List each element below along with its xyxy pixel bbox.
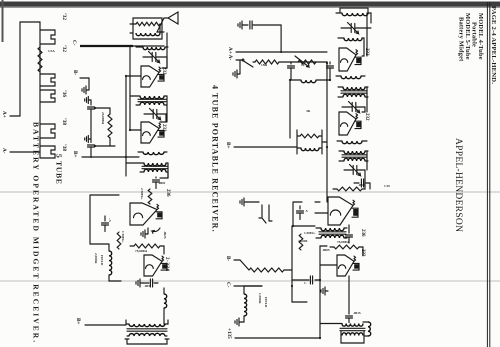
page corner line bottom: [2, 0, 4, 42]
svg-text:1.MEG.: 1.MEG.: [304, 231, 316, 235]
wire plate V3: [348, 225, 350, 233]
ground G9: [85, 135, 91, 142]
wire B+2: [85, 324, 126, 326]
wire +135: [235, 337, 320, 339]
field wires: [242, 286, 262, 322]
tube V3 236: [328, 197, 353, 225]
trimmer capacitor C1: [348, 23, 359, 34]
filament ladder rail A: [19, 22, 21, 116]
ground G8: [85, 96, 91, 103]
trimmer C11b: [150, 109, 161, 120]
C- lead thin: [133, 45, 164, 47]
svg-text:FIELD: FIELD: [100, 255, 104, 266]
capacitor C15 .5: [104, 216, 106, 221]
filament hump 1: [40, 30, 55, 44]
ground G4: [235, 318, 242, 326]
svg-text:3K: 3K: [306, 109, 311, 113]
output transformer T5: [342, 324, 363, 327]
bus wire y210: [289, 80, 291, 138]
wire R6 top: [284, 269, 292, 271]
svg-text:’38: ’38: [61, 144, 67, 151]
loop antenna coil L1: [342, 13, 368, 16]
svg-text:1 MEG.: 1 MEG.: [121, 231, 125, 243]
trimmer capacitor C2: [349, 102, 360, 113]
field wires: [90, 195, 121, 281]
svg-text:25,000: 25,000: [298, 239, 308, 243]
tube V1 232: [339, 48, 356, 71]
svg-text:APPEL-HENDERSON: APPEL-HENDERSON: [453, 138, 463, 232]
svg-text:PAGE 2-4 APPEL-HEND.: PAGE 2-4 APPEL-HEND.: [490, 6, 497, 84]
antenna transformer T1 primary: [136, 22, 160, 25]
B+ lead 1: [82, 156, 126, 158]
field coil L11: [109, 251, 112, 275]
svg-text:-.5: -.5: [108, 218, 112, 222]
IF transformer T2: [343, 87, 365, 90]
bus y180 right: [319, 246, 321, 338]
transformer T4b: [144, 163, 166, 166]
svg-text:2-238: 2-238: [164, 257, 169, 272]
bypass capacitor C7: [290, 62, 292, 64]
bus y370: [129, 46, 131, 130]
faint scan streak 2: [0, 280, 500, 282]
svg-text:1 M: 1 M: [384, 184, 391, 188]
svg-text:5 TUBE: 5 TUBE: [55, 154, 64, 185]
switch SW1: [236, 60, 253, 67]
volume control R4: [298, 60, 316, 64]
svg-text:236: 236: [165, 189, 170, 197]
junction dots: [289, 62, 331, 339]
tube V5 232: [141, 66, 159, 87]
bypass capacitor C17: [90, 100, 92, 105]
filament hump 3: [40, 90, 55, 102]
svg-text:Battery Midget: Battery Midget: [458, 17, 465, 62]
output transformer T6: [129, 324, 165, 327]
ladder end closure: [20, 21, 40, 23]
filament hump 4: [40, 124, 55, 138]
grid rail stage1: [366, 13, 368, 112]
svg-text:B+: B+: [75, 318, 81, 324]
resistor R6 chain: [249, 268, 284, 272]
trimmer capacitor C3: [350, 165, 361, 176]
filament rheostat R12: [38, 47, 42, 72]
B+ wires: [234, 130, 327, 154]
grid rail stage2: [365, 141, 367, 170]
antenna transformer T1 secondary: [136, 33, 160, 36]
svg-text:B-: B-: [225, 256, 231, 261]
jack J1: [259, 205, 272, 223]
svg-text:2,500Ω: 2,500Ω: [94, 253, 98, 264]
filament hump 5: [40, 146, 55, 158]
svg-text:.005: .005: [144, 284, 150, 288]
wire R2: [330, 247, 363, 255]
resistor R7b 1 MEG: [299, 234, 303, 250]
tube V4 233: [337, 255, 354, 276]
resistor R8 2 MEG: [148, 189, 152, 204]
B+ resistor R5: [300, 134, 319, 138]
coil L2: [344, 38, 362, 41]
rheostat R3: [255, 60, 279, 64]
wire grid V6: [160, 114, 166, 122]
resistor R9 1 MEG: [117, 232, 121, 249]
svg-text:1,500Ω: 1,500Ω: [258, 293, 262, 304]
bus y208 right: [292, 226, 307, 302]
bypass capacitor C6: [329, 62, 331, 64]
RF transformer T2: [143, 47, 165, 50]
wire R1: [333, 170, 370, 189]
svg-text:C-: C-: [225, 282, 231, 288]
field coil L8: [244, 294, 247, 316]
grid rail 5tube: [167, 33, 168, 178]
svg-text:B+: B+: [72, 151, 78, 157]
speaker frame: [125, 339, 169, 344]
filament ladder rail B: [39, 22, 41, 158]
wires grid network: [293, 202, 315, 226]
bus y374: [125, 76, 127, 176]
choke coil L5: [368, 322, 371, 336]
svg-text:232: 232: [364, 113, 369, 121]
wire A- up: [279, 61, 327, 63]
scan gutter band left edge: [0, 2, 500, 7]
svg-text:232: 232: [161, 67, 166, 75]
svg-text:’38: ’38: [61, 118, 67, 125]
choke L6: [301, 80, 316, 83]
model text block: [458, 13, 485, 62]
svg-text:C-: C-: [71, 40, 77, 46]
wire R10: [130, 246, 164, 254]
svg-text:B+: B+: [225, 142, 231, 148]
svg-text:232: 232: [161, 124, 166, 132]
svg-text:+135: +135: [226, 328, 232, 339]
border double rule: [489, 2, 491, 347]
resistor R11 25000: [108, 114, 112, 138]
junction dots 5: [94, 45, 131, 158]
capacitor C10: [315, 279, 320, 281]
plate coil L4: [342, 141, 362, 144]
grid cap arrow C13: [152, 228, 160, 233]
ground G5b: [321, 287, 328, 295]
tube V8 2-238: [144, 255, 162, 276]
faint scan streak 1: [0, 191, 500, 193]
bus verticals: [126, 76, 141, 163]
svg-text:.0015: .0015: [353, 311, 361, 315]
svg-text:BATTERY OPERATED MIDGET RECEIV: BATTERY OPERATED MIDGET RECEIVER.: [32, 122, 41, 344]
coupling capacitor C5b: [346, 235, 353, 237]
ground G1 and antenna capacitor: [238, 21, 245, 29]
wire grid V5: [162, 57, 167, 68]
plate coil L9: [143, 152, 164, 155]
bus wire y173: [326, 62, 328, 202]
ground G3: [240, 198, 247, 206]
switch SW2: [234, 260, 249, 270]
svg-text:A-: A-: [1, 148, 7, 154]
wire to bus: [253, 25, 281, 52]
capacitor C12 .0001: [167, 172, 169, 178]
filament hump 2: [40, 74, 55, 86]
svg-text:’32: ’32: [61, 45, 67, 52]
A+ lead: [10, 115, 20, 117]
B+ choke L7: [301, 148, 319, 151]
A- lead: [10, 151, 40, 153]
antenna: [157, 12, 178, 32]
svg-text:A+ A-: A+ A-: [227, 47, 233, 60]
tube V2 232: [339, 112, 356, 135]
wires R11: [95, 108, 115, 146]
tube V6 232: [141, 122, 159, 143]
svg-text:A+: A+: [1, 111, 7, 118]
trimmer C11: [149, 52, 160, 63]
heavy C- lead: [80, 45, 133, 47]
A+ lead: [236, 51, 327, 53]
capacitor C5 .0015: [348, 276, 350, 314]
transformer T3: [140, 96, 164, 99]
svg-text:.5: .5: [305, 209, 308, 213]
ground G2: [239, 60, 241, 74]
ground G6 + capacitor C16: [143, 282, 149, 284]
svg-text:1/3A: 1/3A: [48, 49, 55, 53]
capacitor C4 .0005: [354, 182, 370, 184]
T5 down lead: [320, 323, 342, 325]
IF transformer T3: [344, 151, 365, 154]
svg-text:2 MEG.: 2 MEG.: [140, 188, 144, 200]
svg-text:233: 233: [360, 249, 365, 257]
wire grid V1: [362, 38, 364, 56]
svg-text:’36: ’36: [61, 90, 67, 97]
antenna transformer T1 box: [133, 18, 162, 39]
svg-text:.0005: .0005: [322, 248, 330, 252]
svg-text:236: 236: [360, 229, 365, 237]
svg-text:.0001: .0001: [158, 181, 166, 185]
bypass capacitor C18: [88, 145, 95, 147]
svg-text:FIELD: FIELD: [264, 297, 268, 308]
svg-text:75,000Ω: 75,000Ω: [135, 249, 147, 253]
svg-text:1.: 1.: [304, 281, 307, 285]
ground G5: [147, 228, 149, 234]
svg-text:’32: ’32: [61, 13, 67, 20]
svg-text:10: 10: [301, 63, 305, 67]
ground G7: [82, 86, 89, 94]
tube V7 236: [130, 203, 157, 225]
B- bracket: [80, 78, 89, 90]
capacitor C8 .5: [299, 206, 301, 209]
resistor R10 75000: [134, 244, 160, 248]
svg-text:75,000Ω: 75,000Ω: [337, 240, 349, 244]
svg-text:.0025: .0025: [163, 231, 167, 239]
speaker bracket T5: [341, 331, 364, 343]
choke L10: [164, 294, 167, 308]
resistor R2 75000: [334, 245, 359, 249]
vertical joins: [315, 202, 337, 265]
svg-text:25,000Ω: 25,000Ω: [101, 112, 105, 124]
C- wire: [234, 285, 262, 287]
svg-text:4 TUBE PORTABLE RECEIVER.: 4 TUBE PORTABLE RECEIVER.: [211, 85, 220, 233]
wire grid V2: [362, 107, 365, 112]
plate coil L3: [341, 76, 361, 79]
audio transformer T4: [321, 228, 344, 231]
svg-text:B-: B-: [72, 70, 78, 75]
grid resistor R1: [337, 187, 362, 191]
svg-text:15Ω: 15Ω: [261, 63, 267, 67]
